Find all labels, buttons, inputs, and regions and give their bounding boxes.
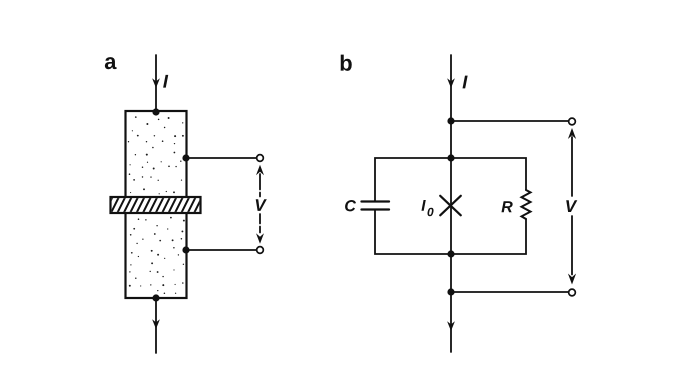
label V (b) — [566, 200, 577, 212]
wire top rail of parallel network — [375, 158, 526, 201]
wire top current lead (a) — [155, 55, 157, 111]
terminal lower (a) — [257, 247, 264, 254]
wire bottom current lead (b) — [450, 292, 452, 352]
label C — [345, 200, 356, 211]
node lower right tap (a) — [182, 246, 189, 253]
terminal upper (b) — [569, 118, 576, 125]
label I0 — [421, 200, 425, 211]
node lower output tap (b) — [447, 288, 454, 295]
voltage arrow V (a) dashed — [256, 165, 264, 244]
current arrow I (b) — [447, 78, 455, 88]
tunnel barrier bar (a) — [104, 196, 209, 214]
wire top current lead (b) — [450, 55, 452, 158]
node top of block (a) — [152, 108, 159, 115]
label I (a) — [163, 75, 168, 88]
panel label b — [341, 55, 352, 71]
wire center branch through junction (b) — [450, 158, 452, 292]
node top of parallel network (b) — [447, 154, 454, 161]
current arrow I (a) — [152, 78, 160, 88]
node upper right tap (a) — [182, 154, 189, 161]
Josephson junction X symbol — [440, 196, 461, 216]
resistor R zigzag — [522, 190, 531, 219]
current exit arrow (a) — [152, 319, 160, 329]
voltage arrow V (b) — [568, 128, 576, 285]
terminal upper (a) — [257, 155, 264, 162]
label V (a) — [256, 199, 267, 211]
stipple texture — [128, 116, 185, 294]
node upper output tap (b) — [447, 117, 454, 124]
terminal lower (b) — [569, 289, 576, 296]
node bottom of parallel network (b) — [447, 250, 454, 257]
wire bottom rail of parallel network — [375, 210, 526, 254]
wire lower voltage tap (a) — [186, 249, 257, 251]
superconducting electrode block (a) — [126, 111, 187, 298]
node bottom of block (a) — [152, 294, 159, 301]
label R — [501, 201, 512, 212]
wire bottom current lead (a) — [155, 298, 157, 353]
capacitor C — [362, 202, 390, 210]
label I (b) — [463, 76, 468, 89]
wire upper voltage tap (a) — [186, 157, 257, 159]
current exit arrow (b) — [447, 321, 455, 331]
wire lower tap to terminal (b) — [451, 291, 569, 293]
wire upper tap to terminal (b) — [451, 120, 569, 122]
panel label a — [105, 57, 117, 69]
